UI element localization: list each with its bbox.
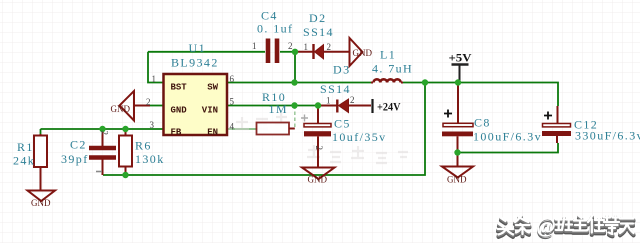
svg-text:2: 2 [314, 146, 324, 151]
svg-text:SS14: SS14 [303, 25, 334, 39]
svg-text:GND: GND [308, 175, 328, 185]
svg-text:U1: U1 [189, 41, 206, 55]
svg-text:100uF/6.3v: 100uF/6.3v [473, 130, 542, 144]
svg-text:C2: C2 [70, 138, 87, 152]
svg-text:0. 1uf: 0. 1uf [257, 22, 293, 36]
svg-text:2: 2 [146, 97, 151, 107]
svg-text:1: 1 [304, 42, 309, 52]
svg-text:2: 2 [288, 41, 293, 51]
svg-text:GND: GND [353, 48, 373, 58]
svg-text:@: @ [536, 213, 556, 237]
svg-text:3: 3 [150, 120, 155, 130]
svg-text:D2: D2 [309, 11, 326, 25]
svg-text:4: 4 [230, 121, 235, 131]
svg-text:2: 2 [350, 95, 355, 105]
svg-text:GND: GND [447, 175, 467, 185]
svg-text:1M: 1M [269, 102, 288, 116]
svg-text:1: 1 [252, 41, 257, 51]
svg-text:SW: SW [207, 83, 218, 93]
svg-text:R1: R1 [17, 140, 34, 154]
svg-text:+24V: +24V [377, 100, 401, 114]
svg-text:1: 1 [326, 96, 331, 106]
svg-text:C5: C5 [334, 117, 351, 131]
svg-text:2: 2 [327, 42, 332, 52]
svg-text:SS14: SS14 [320, 82, 351, 96]
svg-text:24k: 24k [13, 154, 35, 168]
svg-text:C8: C8 [474, 116, 491, 130]
svg-text:2: 2 [100, 131, 110, 136]
svg-text:L1: L1 [380, 48, 396, 62]
svg-text:1: 1 [152, 74, 157, 84]
svg-text:39pf: 39pf [61, 152, 89, 166]
svg-text:R6: R6 [135, 139, 152, 153]
svg-text:330uF/6.3v: 330uF/6.3v [575, 129, 640, 143]
svg-text:GND: GND [31, 198, 51, 208]
svg-text:+5V: +5V [449, 51, 472, 65]
svg-text:C4: C4 [261, 9, 278, 23]
svg-text:130k: 130k [135, 152, 165, 166]
svg-text:5: 5 [230, 97, 235, 107]
svg-text:GND: GND [171, 106, 188, 116]
svg-text:6: 6 [230, 74, 235, 84]
svg-text:GND: GND [111, 104, 131, 114]
svg-text:EN: EN [207, 128, 218, 138]
svg-text:D3: D3 [333, 63, 350, 77]
svg-text:4. 7uH: 4. 7uH [372, 62, 413, 76]
svg-text:BST: BST [171, 83, 188, 93]
svg-text:BL9342: BL9342 [171, 56, 219, 70]
svg-text:VIN: VIN [202, 106, 218, 116]
svg-text:FB: FB [171, 128, 182, 138]
svg-text:10uf/35v: 10uf/35v [332, 130, 387, 144]
